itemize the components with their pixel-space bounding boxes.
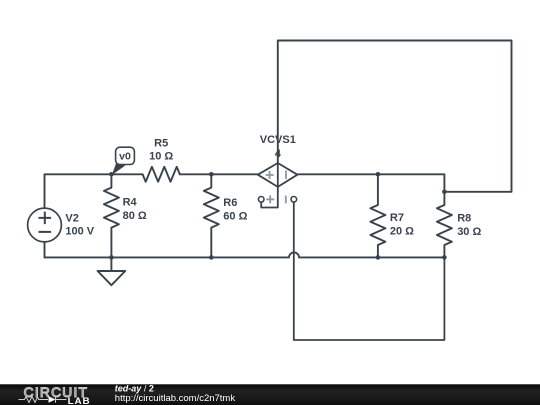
resistor R5 body — [143, 167, 180, 182]
svg-text:30 Ω: 30 Ω — [457, 226, 481, 238]
svg-text:80 Ω: 80 Ω — [123, 210, 147, 222]
label R7 value — [390, 212, 414, 237]
svg-text:R4: R4 — [123, 197, 138, 209]
CircuitLab logo wordmark — [24, 385, 91, 405]
CircuitLab logo schematic squiggle — [19, 396, 67, 402]
resistor R4 — [104, 174, 119, 257]
label R6 value — [223, 197, 247, 222]
label R4 value — [123, 197, 147, 222]
resistor R7 — [370, 174, 385, 257]
wire top rail right (VCVS right to R8 top corner) — [297, 174, 444, 192]
VCVS1 sense terminal minus — [286, 196, 297, 204]
svg-text:20 Ω: 20 Ω — [390, 226, 414, 238]
node v0 flag — [112, 147, 134, 175]
wire minus sense to bottom loop — [294, 202, 445, 340]
svg-text:VCVS1: VCVS1 — [260, 134, 296, 146]
svg-text:R8: R8 — [457, 212, 471, 224]
wire through VCVS1 to plus sense terminal — [261, 163, 278, 208]
label V2 value — [65, 212, 94, 237]
wire bottom rail with hop over sense wire — [45, 252, 445, 257]
svg-text:v0: v0 — [119, 151, 131, 163]
label R5 value — [149, 138, 173, 163]
wire top rail middle (R5 to VCVS left) — [180, 173, 258, 175]
resistor R6 — [204, 174, 219, 257]
svg-text:60 Ω: 60 Ω — [223, 210, 247, 222]
resistor R8 — [437, 192, 452, 258]
svg-text:R7: R7 — [390, 212, 404, 224]
voltage source V2 — [28, 208, 62, 242]
svg-text:R5: R5 — [154, 138, 168, 150]
svg-text:ted-ay / 2: ted-ay / 2 — [115, 383, 154, 393]
svg-text:LAB: LAB — [68, 396, 91, 405]
wire control loop (R8 top to top-right loop to VCVS plus sense) — [278, 41, 512, 192]
op-amp VCVS1 diamond body — [258, 163, 298, 187]
svg-text:R6: R6 — [223, 197, 237, 209]
svg-text:4: 4 — [275, 148, 282, 160]
wire top rail left (V2 top to R5) — [45, 174, 143, 208]
svg-text:10 Ω: 10 Ω — [149, 150, 173, 162]
wire V2 bottom lead — [44, 242, 46, 257]
svg-text:V2: V2 — [65, 212, 78, 224]
label VCVS1 name and gain — [260, 134, 296, 160]
svg-text:100 V: 100 V — [65, 225, 94, 237]
label R8 value — [457, 212, 481, 237]
ground symbol — [98, 257, 126, 285]
svg-text:http://circuitlab.com/c2n7tmk: http://circuitlab.com/c2n7tmk — [115, 393, 236, 404]
footer bar — [0, 384, 540, 405]
node junction dots — [109, 172, 447, 260]
VCVS1 sense terminal plus — [258, 195, 274, 203]
